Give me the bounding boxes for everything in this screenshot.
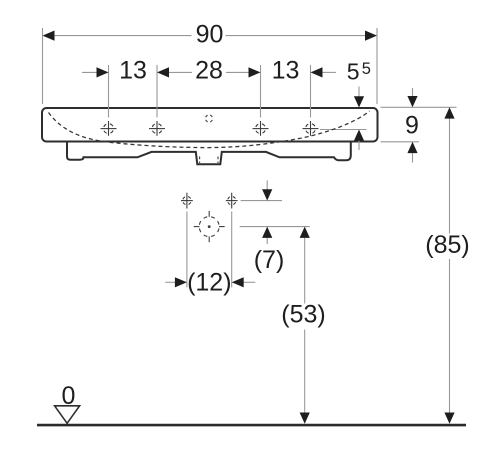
dimension 5.5 top arrow tail bbox=[358, 87, 360, 98]
dimension 12 left arrow bbox=[175, 277, 187, 287]
svg-text:90: 90 bbox=[196, 21, 224, 49]
ground line bbox=[37, 424, 466, 427]
svg-text:13: 13 bbox=[119, 57, 147, 85]
dimension 53 up arrow bbox=[300, 227, 310, 238]
tap hole 2 bbox=[149, 121, 165, 136]
extension line tap hole 4 bbox=[310, 65, 312, 118]
dimension 85 line lower bbox=[449, 259, 451, 414]
top edge reference line bbox=[381, 106, 457, 108]
svg-text:(85): (85) bbox=[425, 231, 469, 259]
mounting hole left bbox=[181, 193, 193, 209]
svg-text:9: 9 bbox=[405, 112, 419, 140]
svg-text:13: 13 bbox=[272, 57, 300, 85]
dimension 9 down arrow bbox=[407, 96, 417, 107]
tap hole centerline extension bbox=[320, 129, 367, 131]
extension line tap hole 3 bbox=[260, 65, 262, 118]
dimension 53 down arrow bbox=[300, 413, 310, 424]
extension line mounting hole left bbox=[186, 212, 188, 288]
extension line right of 90 bbox=[376, 28, 378, 104]
dimension 5.5 bottom arrow tail bbox=[358, 140, 360, 150]
extension line mounting hole right bbox=[231, 212, 233, 288]
dimension 5.5 up arrow bbox=[354, 130, 364, 141]
drain box hidden edges bbox=[200, 157, 218, 164]
svg-text:(53): (53) bbox=[281, 301, 325, 329]
tap hole 3 bbox=[253, 121, 269, 136]
dimension 12 left leader bbox=[165, 281, 176, 283]
dimension 9 top arrow tail bbox=[412, 88, 414, 97]
extension line tap hole 1 bbox=[108, 65, 110, 118]
dimension 85 line upper bbox=[449, 118, 451, 234]
overflow hole bbox=[205, 115, 212, 122]
dimension 90 line bbox=[54, 35, 366, 37]
drain hole symbol bbox=[194, 211, 225, 242]
dimension 7 down arrow bbox=[262, 189, 272, 200]
dimension 28 left arrow bbox=[157, 67, 169, 77]
dimension 28 right arrow bbox=[249, 67, 261, 77]
datum triangle bbox=[55, 406, 80, 424]
dimension 7 bottom arrow tail bbox=[266, 237, 268, 244]
dimension 5.5 down arrow bbox=[354, 96, 364, 107]
washbasin body outline bbox=[42, 108, 378, 142]
dimension 53 line upper bbox=[304, 237, 306, 303]
mounting hole right bbox=[226, 193, 238, 209]
tap hole 1 bbox=[101, 121, 117, 136]
dimension 13 left arrow bbox=[97, 67, 109, 77]
tap hole 4 bbox=[303, 121, 319, 136]
dimension 85 down arrow bbox=[444, 413, 454, 424]
svg-text:28: 28 bbox=[195, 57, 223, 85]
dimension 28 line bbox=[168, 71, 250, 73]
drain centerline extension bbox=[240, 226, 310, 228]
dimension 7 up arrow bbox=[262, 227, 272, 238]
bottom edge reference line bbox=[381, 141, 420, 143]
dimension 53 line lower bbox=[304, 330, 306, 414]
dimension 9 up arrow bbox=[407, 142, 417, 153]
dimension 7 top arrow tail bbox=[266, 180, 268, 190]
svg-text:(12): (12) bbox=[187, 268, 231, 296]
extension line tap hole 2 bbox=[156, 65, 158, 118]
inner bowl dashed curve bbox=[49, 111, 370, 148]
dimension 12 right arrow bbox=[232, 277, 244, 287]
dimension 12 right leader bbox=[242, 281, 255, 283]
dimension 13 right leader bbox=[321, 71, 336, 73]
extension line left of 90 bbox=[42, 28, 44, 104]
dimension 13 left leader bbox=[82, 71, 99, 73]
svg-text:(7): (7) bbox=[254, 246, 285, 274]
washbasin underside profile bbox=[67, 142, 351, 165]
dimension 13 right arrow bbox=[311, 67, 323, 77]
dimension 85 up arrow bbox=[444, 107, 454, 118]
mounting hole centerline extension bbox=[241, 200, 282, 202]
dimension 90 right arrow bbox=[365, 31, 377, 41]
svg-text:55: 55 bbox=[347, 58, 371, 84]
dimension 9 bottom arrow tail bbox=[412, 152, 414, 162]
dimension 90 left arrow bbox=[43, 31, 55, 41]
